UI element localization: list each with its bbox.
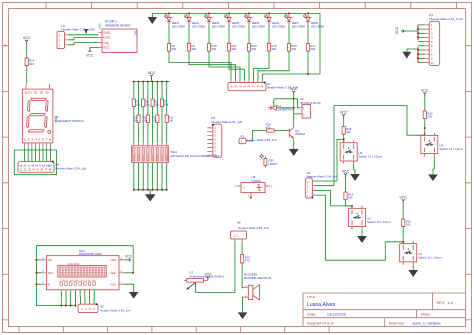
resistor R23 <box>241 255 251 264</box>
svg-text:Header-Male-2.54_1x3M: Header-Male-2.54_1x3M <box>61 28 95 32</box>
svg-text:LED-3MM: LED-3MM <box>192 24 206 28</box>
svg-text:330: 330 <box>191 47 196 51</box>
transistor Q4 2N3904 <box>289 122 305 140</box>
wire U6 to ground <box>354 164 355 174</box>
wire R2 to H1 pin2 <box>189 51 236 80</box>
VCC net flag above R15 <box>399 196 407 204</box>
svg-text:Sheet:: Sheet: <box>421 313 431 317</box>
VCC net flag at LCD <box>125 255 133 262</box>
resistor R10 <box>207 44 210 52</box>
svg-text:LED-3MM: LED-3MM <box>292 24 306 28</box>
wire H3 pin4 to switch U6 node <box>315 139 344 181</box>
svg-text:RW: RW <box>48 271 53 275</box>
svg-text:1.0: 1.0 <box>448 301 453 305</box>
frame tick marks left <box>3 46 9 320</box>
svg-text:Trig: Trig <box>103 41 109 45</box>
resistor R15 <box>402 219 405 227</box>
header H5 <box>207 116 242 157</box>
wire H3 pin3 to switch U3 node <box>315 106 424 186</box>
LED anode bus wire <box>152 13 320 74</box>
VCC net flag above R19 <box>342 170 350 178</box>
segment d <box>28 130 44 132</box>
svg-text:Echo: Echo <box>103 36 110 40</box>
svg-text:13/11/2018: 13/11/2018 <box>327 313 346 317</box>
wire collector node to P2 pin2 <box>294 113 300 115</box>
wire R23 to buzzer pin1 <box>242 263 244 288</box>
header H2 <box>78 303 131 313</box>
svg-text:Date:: Date: <box>307 313 316 317</box>
wire R20 to U3 <box>424 119 426 136</box>
wires LCD RS RW E to loop <box>36 260 41 284</box>
svg-text:Header-Male-2.54_1x4: Header-Male-2.54_1x4 <box>100 308 131 312</box>
resistor R11 <box>165 115 168 123</box>
7-segment display U5 <box>23 84 53 143</box>
svg-text:Switch 12 x 12mm: Switch 12 x 12mm <box>367 220 391 224</box>
wire R17 to H1 pin8 <box>263 51 309 80</box>
LED7 <box>284 13 291 24</box>
wire U4 to ground <box>412 265 414 270</box>
wire R16 to H1 pin6 <box>254 51 270 80</box>
potentiometer U7 <box>184 270 225 289</box>
svg-text:10k: 10k <box>348 196 353 200</box>
svg-text:+: + <box>243 186 245 190</box>
ground below U4 <box>408 270 418 277</box>
VCC net flag for P1 <box>395 26 418 34</box>
wire sensor VCC pin to VCC flag <box>90 47 99 49</box>
segment a <box>31 98 46 100</box>
wire P3 to R24 <box>249 131 267 142</box>
svg-text:10k: 10k <box>136 102 141 106</box>
svg-text:Header-Male-2.54_1x2: Header-Male-2.54_1x2 <box>238 226 269 230</box>
svg-text:LED-3MM: LED-3MM <box>232 24 246 28</box>
tactile switch U6 <box>340 140 357 164</box>
segment e <box>27 117 30 128</box>
header P1 <box>425 13 463 66</box>
svg-text:TITLE:: TITLE: <box>307 295 316 299</box>
wire R19 to U2 <box>346 200 353 209</box>
resistor R14 <box>25 58 28 66</box>
svg-text:a b c d e f g dp: a b c d e f g dp <box>20 164 53 168</box>
svg-text:Switch 12 x 12mm: Switch 12 x 12mm <box>418 255 442 259</box>
svg-text:10: 10 <box>431 61 435 65</box>
svg-text:H6: H6 <box>237 221 241 225</box>
wire R12 to H1 pin5 <box>248 51 250 80</box>
svg-text:1 2 3 4: 1 2 3 4 <box>81 308 97 310</box>
ultrasonic sensor US1 HCSR-1 <box>98 20 138 53</box>
wire stub near U5 label <box>55 117 57 123</box>
svg-text:10k: 10k <box>406 223 411 227</box>
ground at LED bus left end <box>148 13 157 24</box>
wire VCC to R18 <box>343 119 345 127</box>
svg-text:330: 330 <box>211 47 216 51</box>
resistor R7 <box>160 99 163 107</box>
tactile switch U3 <box>421 133 438 157</box>
frame tick marks top <box>46 3 456 9</box>
wire VSS to ground <box>124 284 134 292</box>
wire R3 to H1 pin1 <box>169 51 231 80</box>
LED3 <box>204 13 211 24</box>
svg-text:BUZZER-AB1206-03: BUZZER-AB1206-03 <box>244 276 271 280</box>
wire R14 to 7-seg top pin <box>26 66 28 84</box>
svg-text:LED-3MM: LED-3MM <box>252 24 266 28</box>
segment g <box>29 114 45 116</box>
LED1 <box>164 13 171 24</box>
svg-text:2: 2 <box>4 44 6 48</box>
svg-text:330: 330 <box>291 47 296 51</box>
wire D1 to collector node <box>280 99 294 122</box>
connector P2 <box>300 97 321 118</box>
svg-text:Switch 12 x 12mm: Switch 12 x 12mm <box>440 147 464 151</box>
svg-text:HC: HC <box>134 31 138 36</box>
wire H6 pin2 to R23 <box>241 242 243 255</box>
svg-text:1 2 3 4 5 6 7 8: 1 2 3 4 5 6 7 8 <box>230 86 265 88</box>
wire R10 to H1 pin3 <box>209 51 240 80</box>
net arrow at H7 label <box>84 29 88 35</box>
LED5 <box>224 13 231 24</box>
junction dots on bank bus <box>133 81 135 83</box>
ground at P1 <box>402 52 411 59</box>
svg-text:DIP switch,Dip Switch,DSWB8LHG: DIP switch,Dip Switch,DSWB8LHGET <box>171 154 220 158</box>
svg-text:330: 330 <box>310 47 315 51</box>
wire R15 to U4 <box>402 227 404 244</box>
wire R13 to H1 pin7 <box>258 51 289 80</box>
tactile switch U4 <box>400 241 417 265</box>
wire VCC to R20 <box>424 97 426 112</box>
svg-text:GND: GND <box>103 31 111 35</box>
wire buzzer pin2 to ground <box>243 297 245 312</box>
svg-text:VCC: VCC <box>204 273 212 277</box>
resistor R20 <box>423 111 426 119</box>
wire H3 pin1 to switch U4 node <box>315 195 403 260</box>
svg-text:VEE: VEE <box>110 271 116 275</box>
photoresistor R25 LDR07 <box>260 154 278 167</box>
resistor R24 <box>266 123 275 133</box>
wires 7-seg to H4 <box>25 147 51 161</box>
svg-text:10k: 10k <box>133 118 138 122</box>
LED4 <box>264 13 271 24</box>
svg-text:VSS: VSS <box>110 282 116 286</box>
VCC net flag (left, feeds R14) <box>23 36 31 44</box>
svg-text:LED-3MM: LED-3MM <box>311 24 325 28</box>
ground at LCD VSS <box>129 292 139 299</box>
wires LCD data pins to bottom bus <box>61 290 75 306</box>
P1 pin stubs to bundles <box>418 25 425 63</box>
segment c <box>45 117 48 128</box>
svg-text:10k: 10k <box>152 118 157 122</box>
wire VDD to VCC flag <box>124 259 128 261</box>
wire U3 to ground <box>433 157 434 175</box>
header H4 <box>18 161 87 173</box>
LCD glass area with stripes <box>58 266 106 277</box>
VCC net flag above R20 <box>421 89 429 97</box>
wire H6 pin1 to pot wiper <box>196 242 235 293</box>
svg-text:1 2: 1 2 <box>234 233 238 237</box>
LED8 <box>303 13 310 24</box>
resistor R19 <box>344 192 347 200</box>
wire R24 to Q4 base <box>274 130 289 132</box>
svg-text:10 6 9 5: 10 6 9 5 <box>24 91 50 95</box>
decimal point <box>48 130 51 133</box>
svg-text:Header-Male-2.54_1x10: Header-Male-2.54_1x10 <box>429 17 463 21</box>
resistor R17 <box>306 44 309 52</box>
svg-text:10k: 10k <box>164 102 169 106</box>
LCD module DS1 DMC20481 <box>42 249 125 290</box>
wire VCC to rail <box>293 95 295 99</box>
frame tick marks bottom <box>19 327 329 333</box>
wire VCC to R19 <box>345 178 347 193</box>
svg-text:10k: 10k <box>168 118 173 122</box>
VCC net flag at potentiometer <box>204 273 212 281</box>
pull-up bank VCC bus wire <box>132 79 170 82</box>
svg-text:330: 330 <box>251 47 256 51</box>
svg-text:470: 470 <box>266 125 271 129</box>
red bundle wire P1 pins 7-10 <box>417 47 419 63</box>
VCC net flag above D1/P2 rail <box>290 87 298 95</box>
wire VCC to R15 <box>402 204 404 220</box>
svg-text:330: 330 <box>231 47 236 51</box>
ground below U3 <box>428 175 438 182</box>
svg-text:luana_a_rodrigues: luana_a_rodrigues <box>413 321 441 325</box>
resistor R3 <box>167 44 170 52</box>
svg-text:LED-3MM: LED-3MM <box>172 24 186 28</box>
ground below DIP switch <box>145 190 156 202</box>
resistor R12 <box>247 44 250 52</box>
VCC net flag (below sensor, inverted) <box>86 48 94 58</box>
header H1 <box>228 80 298 90</box>
segment b <box>46 101 49 112</box>
wire R21 to H1 pin4 <box>229 51 245 80</box>
ground below buzzer <box>238 312 248 319</box>
red bundle wire P1 pins 1-4 <box>417 25 419 40</box>
svg-text:10k: 10k <box>427 115 432 119</box>
resistor R18 <box>342 127 345 135</box>
resistor R2 <box>187 44 190 52</box>
VCC net flag above pull-up bank <box>148 71 156 79</box>
svg-text:US1: US1 <box>98 23 102 29</box>
wire H7 pin2 to sensor Echo <box>68 38 99 40</box>
wire H7 pin3 to sensor GND <box>68 34 99 36</box>
ground below U2 <box>357 236 367 243</box>
ground below U6 <box>350 174 360 181</box>
resistor R16 <box>267 44 270 52</box>
resistor R21 <box>227 44 230 52</box>
resistor R5 <box>132 99 135 107</box>
svg-text:LED-3MM: LED-3MM <box>212 24 226 28</box>
title block <box>303 293 466 327</box>
wire VEE to loop right <box>124 272 133 274</box>
wires LED cathodes to resistors <box>169 24 308 43</box>
svg-text:470: 470 <box>245 258 250 262</box>
wire U2 to ground <box>361 230 363 237</box>
svg-text:E: E <box>48 282 50 286</box>
wire Q4 emitter to ground <box>293 140 295 149</box>
svg-text:2N3904: 2N3904 <box>295 132 306 136</box>
svg-text:VCC: VCC <box>103 46 110 50</box>
resistor R1 <box>156 115 159 123</box>
resistor R8 <box>142 99 145 107</box>
svg-text:10k: 10k <box>145 102 150 106</box>
header P3 <box>239 134 277 144</box>
wire rail D1/P2 top <box>274 99 300 108</box>
svg-text:Ultrasonic Sensor: Ultrasonic Sensor <box>105 24 131 28</box>
LCD wire loop <box>36 246 133 306</box>
svg-text:7-SEGMENT-DISPLAY: 7-SEGMENT-DISPLAY <box>55 119 85 123</box>
junction at bus end / R17 <box>307 73 309 75</box>
svg-text:1 2 3 4 5 6 7 8: 1 2 3 4 5 6 7 8 <box>24 138 52 142</box>
frame tick marks right <box>466 46 472 320</box>
svg-text:VCC: VCC <box>86 54 94 58</box>
wires LCD data pins to H2 <box>79 290 81 304</box>
DIP ground bus wire <box>134 189 167 191</box>
svg-text:330: 330 <box>271 47 276 51</box>
svg-text:1 2 3 4 5 6 7 8: 1 2 3 4 5 6 7 8 <box>20 169 53 172</box>
svg-text:Drawn By:: Drawn By: <box>389 321 405 325</box>
tactile switch U2 <box>349 206 366 230</box>
ground at Q4 emitter <box>289 149 299 156</box>
wire H3 pin2 to switch U2 node <box>315 190 352 206</box>
buzzer BUZZER1 <box>244 272 271 300</box>
resistor R13 <box>287 44 290 52</box>
wire loop around H4 <box>14 150 56 175</box>
segment f <box>28 101 31 112</box>
temperature sensor U8 LM335 <box>234 175 273 198</box>
junction dots on LED bus <box>168 12 170 14</box>
svg-text:Header-Male-2.54_1x8: Header-Male-2.54_1x8 <box>211 120 242 124</box>
svg-text:330: 330 <box>29 62 34 66</box>
svg-text:P3: P3 <box>241 134 245 138</box>
svg-text:LED-3MM: LED-3MM <box>272 24 286 28</box>
wire P1 gnd bundle <box>407 49 418 52</box>
wire R18 to U6 <box>343 134 345 143</box>
resistor R9 <box>151 99 154 107</box>
7-seg bottom pin stubs <box>25 143 51 147</box>
header H3 <box>305 171 337 199</box>
svg-text:VCC: VCC <box>395 26 399 34</box>
wire H7 pin1 to sensor Trig <box>68 43 99 45</box>
DIP switch SW1 <box>131 143 219 162</box>
bank column wires <box>134 82 167 115</box>
svg-text:REV:: REV: <box>437 301 446 305</box>
svg-text:VDD: VDD <box>110 258 116 262</box>
VCC net flag above R18 <box>340 111 348 119</box>
DIP bottom wires to gnd bus <box>134 163 167 190</box>
svg-text:Switch 12 x 12mm: Switch 12 x 12mm <box>359 154 383 158</box>
svg-text:10k: 10k <box>143 118 148 122</box>
svg-text:330: 330 <box>171 47 176 51</box>
svg-text:10k: 10k <box>346 130 351 134</box>
LED2 <box>184 13 191 24</box>
diode D1 1N4007 <box>268 104 294 111</box>
wire VCC to R14 <box>26 44 28 58</box>
resistor R4 <box>137 115 140 123</box>
header H7 <box>57 24 95 49</box>
svg-text:LDR07: LDR07 <box>269 162 278 166</box>
svg-text:Header-Male-2.54_1x8: Header-Male-2.54_1x8 <box>56 166 87 170</box>
svg-text:Header-Male-2.54_1x1: Header-Male-2.54_1x1 <box>246 138 277 142</box>
svg-text:Luana Alves: Luana Alves <box>307 302 336 308</box>
LED9 <box>244 13 251 24</box>
svg-text:VCC: VCC <box>125 255 133 259</box>
svg-text:EasyEDA V5.8.20: EasyEDA V5.8.20 <box>307 321 334 325</box>
svg-text:RS: RS <box>48 258 52 262</box>
resistor R6 <box>146 115 149 123</box>
svg-text:10k: 10k <box>154 102 159 106</box>
header H6 <box>231 221 270 242</box>
